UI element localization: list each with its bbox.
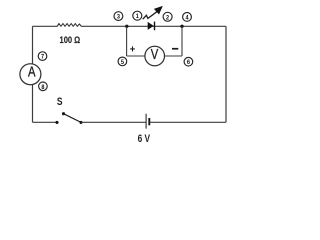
svg-text:A: A xyxy=(28,65,36,81)
junction dot under node 4 xyxy=(180,25,183,28)
svg-text:2: 2 xyxy=(166,14,169,21)
svg-text:V: V xyxy=(151,46,159,63)
svg-text:7: 7 xyxy=(41,54,44,61)
variable arrow with zigzag through diode xyxy=(143,6,163,19)
node 7 circled label xyxy=(38,52,47,61)
svg-text:100 Ω: 100 Ω xyxy=(60,35,81,46)
svg-text:8: 8 xyxy=(41,84,44,91)
wire voltmeter branch horizontal xyxy=(127,55,182,57)
battery cell 6V xyxy=(146,114,149,129)
svg-text:+: + xyxy=(130,44,136,56)
wire bottom left segment to switch xyxy=(33,121,57,123)
ammeter A xyxy=(20,64,41,85)
wire bottom right segment xyxy=(149,121,226,123)
node 1 circled label xyxy=(133,11,142,20)
node 4 circled label xyxy=(183,13,192,22)
junction dot under node 3 xyxy=(125,25,128,28)
wire right vertical xyxy=(225,26,227,122)
node 3 circled label xyxy=(114,12,123,21)
node 5 circled label xyxy=(118,57,127,66)
node 2 circled label xyxy=(163,12,172,21)
svg-text:5: 5 xyxy=(121,59,124,66)
switch S xyxy=(55,112,82,124)
wire voltmeter branch left vertical xyxy=(126,26,128,56)
resistor 100 ohm zigzag xyxy=(57,24,81,27)
voltmeter minus polarity mark xyxy=(172,48,178,50)
svg-text:6: 6 xyxy=(187,59,190,66)
wire top-left segment xyxy=(33,25,58,27)
diode D on top wire xyxy=(148,22,155,31)
node 6 circled label xyxy=(184,57,193,66)
svg-text:1: 1 xyxy=(136,13,139,20)
wire bottom middle segment xyxy=(81,121,146,123)
node 8 circled label xyxy=(39,82,48,91)
voltmeter V xyxy=(145,46,165,66)
svg-text:6 V: 6 V xyxy=(138,133,151,145)
wire left vertical xyxy=(32,26,34,122)
wire voltmeter branch right vertical xyxy=(181,26,183,56)
svg-text:3: 3 xyxy=(117,14,120,21)
svg-text:S: S xyxy=(57,96,63,108)
svg-text:4: 4 xyxy=(185,14,188,21)
wire top middle-right segment xyxy=(81,25,226,27)
